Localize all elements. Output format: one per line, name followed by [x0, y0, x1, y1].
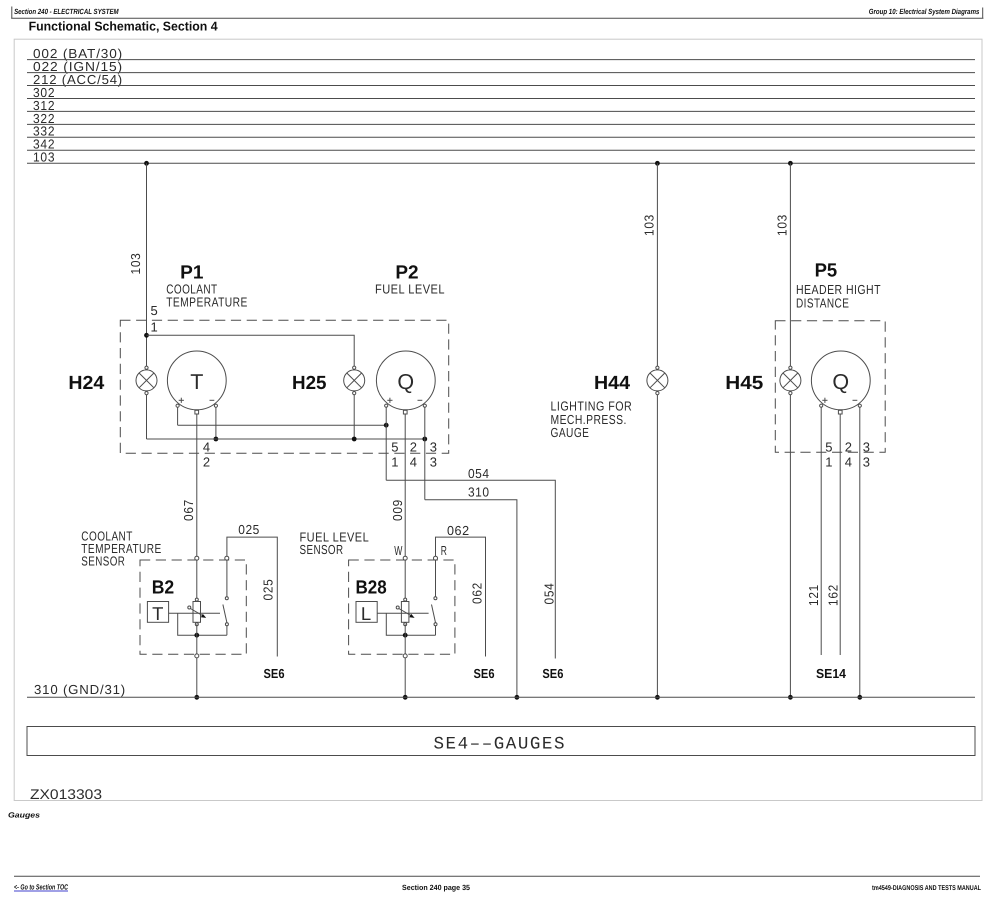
svg-text:310 (GND/31): 310 (GND/31): [34, 682, 126, 697]
svg-text:Gauges: Gauges: [8, 811, 40, 820]
junction H45 ground bus: [788, 695, 793, 700]
svg-text:SE4––GAUGES: SE4––GAUGES: [434, 735, 565, 755]
svg-text:Q: Q: [832, 370, 849, 394]
wire 103 to H45: [789, 163, 791, 366]
wire H25 bottom down: [353, 395, 355, 439]
svg-text:W: W: [394, 543, 403, 558]
svg-text:1: 1: [391, 455, 399, 470]
svg-text:Q: Q: [397, 370, 414, 394]
svg-text:SE6: SE6: [264, 666, 285, 681]
svg-text:H45: H45: [725, 373, 763, 394]
bus 103: [27, 150, 975, 165]
svg-text:103: 103: [775, 214, 790, 236]
bus 212 (ACC/54): [27, 72, 975, 87]
svg-text:tm4549-DIAGNOSIS AND TESTS MAN: tm4549-DIAGNOSIS AND TESTS MANUAL: [872, 885, 982, 892]
svg-text:B28: B28: [356, 577, 387, 598]
wire net A T+ to Q+: [178, 424, 387, 426]
harness box SE4--GAUGES: [27, 727, 975, 756]
wire H44 to ground: [656, 395, 658, 698]
wire 103 to H44: [656, 163, 658, 366]
svg-text:Section 240 - ELECTRICAL SYSTE: Section 240 - ELECTRICAL SYSTEM: [14, 7, 119, 16]
svg-text:025: 025: [238, 522, 259, 537]
footer rule: [14, 875, 980, 877]
wire P5 pin 3/3 to ground: [859, 407, 861, 698]
page header rule and bars: [11, 7, 13, 19]
junction T- on net B: [214, 437, 219, 442]
svg-text:H44: H44: [594, 373, 630, 394]
junction bus 103 / wire to H44: [655, 161, 660, 166]
svg-text:103: 103: [642, 214, 657, 236]
wire B2 internal horizontal: [169, 612, 220, 614]
net 025 run: [227, 537, 277, 656]
junction bus 103 / wire to H45: [788, 161, 793, 166]
H44 caption: [551, 399, 633, 441]
junction B2 ground bus: [194, 695, 199, 700]
svg-text:2: 2: [203, 455, 211, 470]
svg-text:SE6: SE6: [474, 666, 495, 681]
svg-text:<- Go to Section TOC: <- Go to Section TOC: [14, 883, 68, 892]
terminal B28 pin bottom: [403, 654, 407, 658]
svg-text:121: 121: [806, 584, 821, 606]
svg-text:2: 2: [845, 440, 853, 455]
bus 342: [27, 137, 975, 152]
svg-text:ZX013303: ZX013303: [30, 786, 102, 802]
wire T+ down: [177, 407, 179, 425]
svg-text:T: T: [190, 370, 203, 394]
wire Q+ down to net 054: [385, 407, 387, 481]
junction H44 ground bus: [655, 695, 660, 700]
svg-text:162: 162: [825, 584, 840, 606]
wire H24 bottom down: [146, 395, 148, 439]
svg-text:SE6: SE6: [542, 666, 563, 681]
svg-text:3: 3: [430, 440, 438, 455]
junction B28 internal: [403, 633, 408, 638]
bus 022 (IGN/15): [27, 59, 975, 74]
svg-text:SE14: SE14: [816, 666, 847, 681]
B28 switch: [432, 597, 438, 636]
terminal B2 pin top right: [225, 556, 229, 560]
B28 variable resistor: [396, 598, 414, 626]
gauge P2 fuel level: [376, 351, 435, 414]
lamp H24: [136, 366, 157, 395]
svg-text:FUEL LEVEL: FUEL LEVEL: [375, 282, 445, 297]
junction bus 103 / wire to P1: [144, 161, 149, 166]
svg-text:T: T: [152, 603, 163, 624]
B2 variable resistor: [188, 598, 206, 626]
svg-text:062: 062: [447, 523, 470, 538]
svg-text:4: 4: [410, 455, 418, 470]
wire 103 to H24 top: [146, 163, 148, 366]
dashed enclosure P5: [775, 321, 885, 453]
B28 caption: [300, 529, 370, 557]
svg-text:1: 1: [151, 319, 159, 334]
svg-text:R: R: [441, 543, 448, 558]
junction B2 internal: [194, 633, 199, 638]
wire net B lamps ground: [147, 438, 425, 440]
svg-text:TEMPERATURE: TEMPERATURE: [166, 295, 248, 310]
svg-text:1: 1: [825, 455, 833, 470]
terminal B28 pin top left: [403, 556, 407, 560]
B2 caption: [81, 529, 161, 569]
wire B28 internal horizontal: [377, 612, 428, 614]
terminal B28 pin top right: [434, 556, 438, 560]
lamp H25: [344, 366, 365, 395]
pin labels P2 top row 5 2 3: [391, 440, 437, 455]
lamp H44: [647, 366, 668, 395]
wire P5 pin 2/4 down: [839, 414, 841, 655]
net 310 run: [425, 500, 517, 698]
P1 caption: [166, 282, 248, 310]
junction Q- on net B: [422, 437, 427, 442]
pin labels P5 bottom row 1 4 3: [825, 455, 870, 470]
P5 caption: [796, 282, 881, 310]
wire node A to H25 branch: [147, 335, 355, 366]
footer link: [14, 883, 68, 892]
wire B2 to ground: [196, 624, 198, 697]
component B28 dashed box: [349, 560, 455, 654]
net 054 run: [386, 480, 555, 658]
node A junction: [144, 333, 149, 338]
svg-text:5: 5: [151, 303, 159, 318]
svg-text:SENSOR: SENSOR: [81, 554, 125, 569]
svg-text:3: 3: [863, 440, 871, 455]
component B2 dashed box: [140, 560, 246, 654]
terminal B2 pin bottom: [195, 654, 199, 658]
lamp H45: [780, 366, 801, 395]
dashed enclosure P1/P2: [120, 320, 448, 453]
terminal B2 pin top left: [195, 556, 199, 560]
junction on Q+ wire: [384, 423, 389, 428]
svg-text:GAUGE: GAUGE: [551, 425, 590, 440]
svg-text:025: 025: [260, 579, 275, 601]
junction B28 ground bus: [403, 695, 408, 700]
ground bus 310 (GND/31): [27, 682, 975, 697]
svg-text:4: 4: [203, 440, 211, 455]
wire H45 to ground: [789, 395, 791, 698]
svg-text:3: 3: [863, 455, 871, 470]
svg-text:5: 5: [391, 440, 399, 455]
wire Q mid to B28: [404, 414, 406, 600]
svg-text:Functional Schematic, Section: Functional Schematic, Section 4: [29, 18, 219, 33]
svg-text:067: 067: [181, 499, 196, 521]
junction 310 on ground bus: [515, 695, 520, 700]
svg-text:310: 310: [468, 484, 490, 499]
svg-text:Group 10: Electrical System Di: Group 10: Electrical System Diagrams: [869, 7, 980, 16]
svg-text:054: 054: [468, 466, 490, 481]
wire B28 internal L-shape: [386, 613, 435, 635]
wire Q- down to net 310: [424, 407, 426, 500]
svg-text:H24: H24: [68, 373, 104, 394]
gauge P1 coolant temperature: [167, 351, 226, 414]
svg-text:SENSOR: SENSOR: [300, 542, 344, 557]
B2 sensor symbol box T: [147, 602, 168, 624]
svg-text:P5: P5: [815, 261, 838, 282]
svg-text:Section 240 page 35: Section 240 page 35: [402, 883, 470, 892]
gauge P5 header height: [811, 351, 870, 414]
B2 switch: [223, 597, 229, 636]
pin labels P5 top row 5 2 3: [825, 440, 870, 455]
svg-text:P2: P2: [395, 263, 418, 284]
svg-text:2: 2: [410, 440, 418, 455]
svg-text:103: 103: [33, 150, 55, 165]
svg-text:DISTANCE: DISTANCE: [796, 295, 849, 310]
junction P5 pin3 ground bus: [857, 695, 862, 700]
svg-text:5: 5: [825, 440, 833, 455]
svg-text:B2: B2: [152, 577, 175, 598]
svg-text:3: 3: [430, 455, 438, 470]
wire P5 pin 5/1 down: [820, 407, 822, 656]
svg-text:009: 009: [390, 499, 405, 521]
svg-text:P1: P1: [180, 263, 204, 284]
wire B28 to ground: [404, 624, 406, 697]
pin labels P2 bottom row 1 4 3: [391, 455, 437, 470]
svg-text:054: 054: [541, 583, 556, 605]
junction H25 on net B: [352, 437, 357, 442]
bus 002 (BAT/30): [27, 46, 975, 61]
wire T mid to B2: [196, 414, 198, 600]
wire T- down: [215, 407, 217, 439]
bus 332: [27, 124, 975, 139]
bus 302: [27, 85, 975, 100]
bus 312: [27, 98, 975, 113]
bus 322: [27, 111, 975, 126]
svg-text:062: 062: [470, 582, 485, 604]
net 062 run: [436, 537, 486, 656]
svg-text:4: 4: [845, 455, 853, 470]
wire B2 internal L-shape: [178, 613, 227, 635]
svg-text:H25: H25: [292, 373, 327, 394]
svg-text:L: L: [361, 603, 371, 624]
svg-text:103: 103: [128, 253, 143, 275]
B28 sensor symbol box L: [356, 602, 377, 624]
